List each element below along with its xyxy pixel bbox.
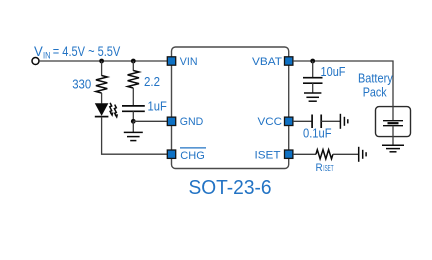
pin label CHG (180, 148, 206, 162)
resistor 2.2 (128, 71, 139, 89)
ground G4 (340, 114, 347, 129)
svg-text:VIN: VIN (180, 56, 198, 68)
svg-text:V: V (34, 44, 43, 59)
svg-text:Battery: Battery (358, 72, 393, 86)
ground G1 (124, 132, 143, 140)
svg-text:Pack: Pack (363, 86, 388, 100)
wire C10uF to ground (312, 83, 314, 93)
svg-text:10uF: 10uF (321, 65, 346, 79)
resistor RISET (316, 150, 333, 159)
svg-text:0.1uF: 0.1uF (303, 126, 332, 140)
wire battery to ground (392, 126, 394, 146)
node junction B (131, 59, 136, 64)
svg-text:2.2: 2.2 (144, 75, 160, 89)
ground G2 (304, 93, 321, 101)
wire to R2.2 (132, 61, 134, 71)
svg-text:= 4.5V ~ 5.5V: = 4.5V ~ 5.5V (53, 44, 121, 59)
svg-text:ISET: ISET (255, 149, 281, 161)
svg-text:SOT-23-6: SOT-23-6 (189, 176, 272, 199)
wire R2.2 to C1 (132, 88, 134, 106)
LED D1 (95, 103, 118, 119)
svg-text:330: 330 (72, 78, 91, 92)
terminal input (32, 58, 39, 65)
label RISET (316, 162, 334, 174)
op-amp U1 body (172, 47, 289, 169)
wire RISET to ground (333, 153, 359, 155)
wire to C10uF (312, 61, 314, 78)
wire VIN main (39, 60, 171, 62)
svg-text:CHG: CHG (180, 150, 205, 162)
node junction D (310, 59, 315, 64)
capacitor 10uF (303, 78, 323, 84)
ground G5 (359, 147, 366, 162)
pin CHG (167, 150, 175, 158)
wire node to ground (132, 121, 134, 132)
pin VIN (167, 57, 175, 65)
pin ISET (285, 150, 293, 158)
wire R330 to LED (101, 93, 103, 103)
pin VBAT (285, 57, 293, 65)
node junction C (131, 119, 136, 124)
wire ISET to RISET (293, 153, 316, 155)
capacitor 1uF (122, 106, 145, 111)
node VIN label (34, 44, 120, 61)
wire to R330 (101, 61, 103, 76)
wire C1 to ground node (132, 111, 134, 124)
pin GND (167, 117, 175, 125)
svg-text:R: R (316, 162, 323, 174)
resistor 330 (96, 76, 107, 94)
node junction A (99, 59, 104, 64)
svg-text:VCC: VCC (258, 116, 283, 128)
svg-text:VBAT: VBAT (252, 56, 282, 68)
battery pack box (376, 107, 411, 137)
capacitor 0.1uF (312, 115, 321, 129)
wire VCC to C0.1uF (293, 120, 312, 122)
ground G3 (382, 145, 404, 152)
svg-text:ISET: ISET (323, 164, 333, 173)
wire node to GND pin (133, 120, 171, 122)
battery BT1 (383, 121, 403, 126)
svg-text:GND: GND (180, 116, 204, 128)
pin VCC (285, 117, 293, 125)
wire C0.1uF to ground (321, 120, 340, 122)
svg-text:IN: IN (43, 51, 51, 61)
label Battery Pack (358, 72, 393, 100)
svg-text:1uF: 1uF (148, 99, 168, 113)
wire VBAT to battery (293, 61, 393, 121)
wire LED to CHG (102, 117, 171, 155)
